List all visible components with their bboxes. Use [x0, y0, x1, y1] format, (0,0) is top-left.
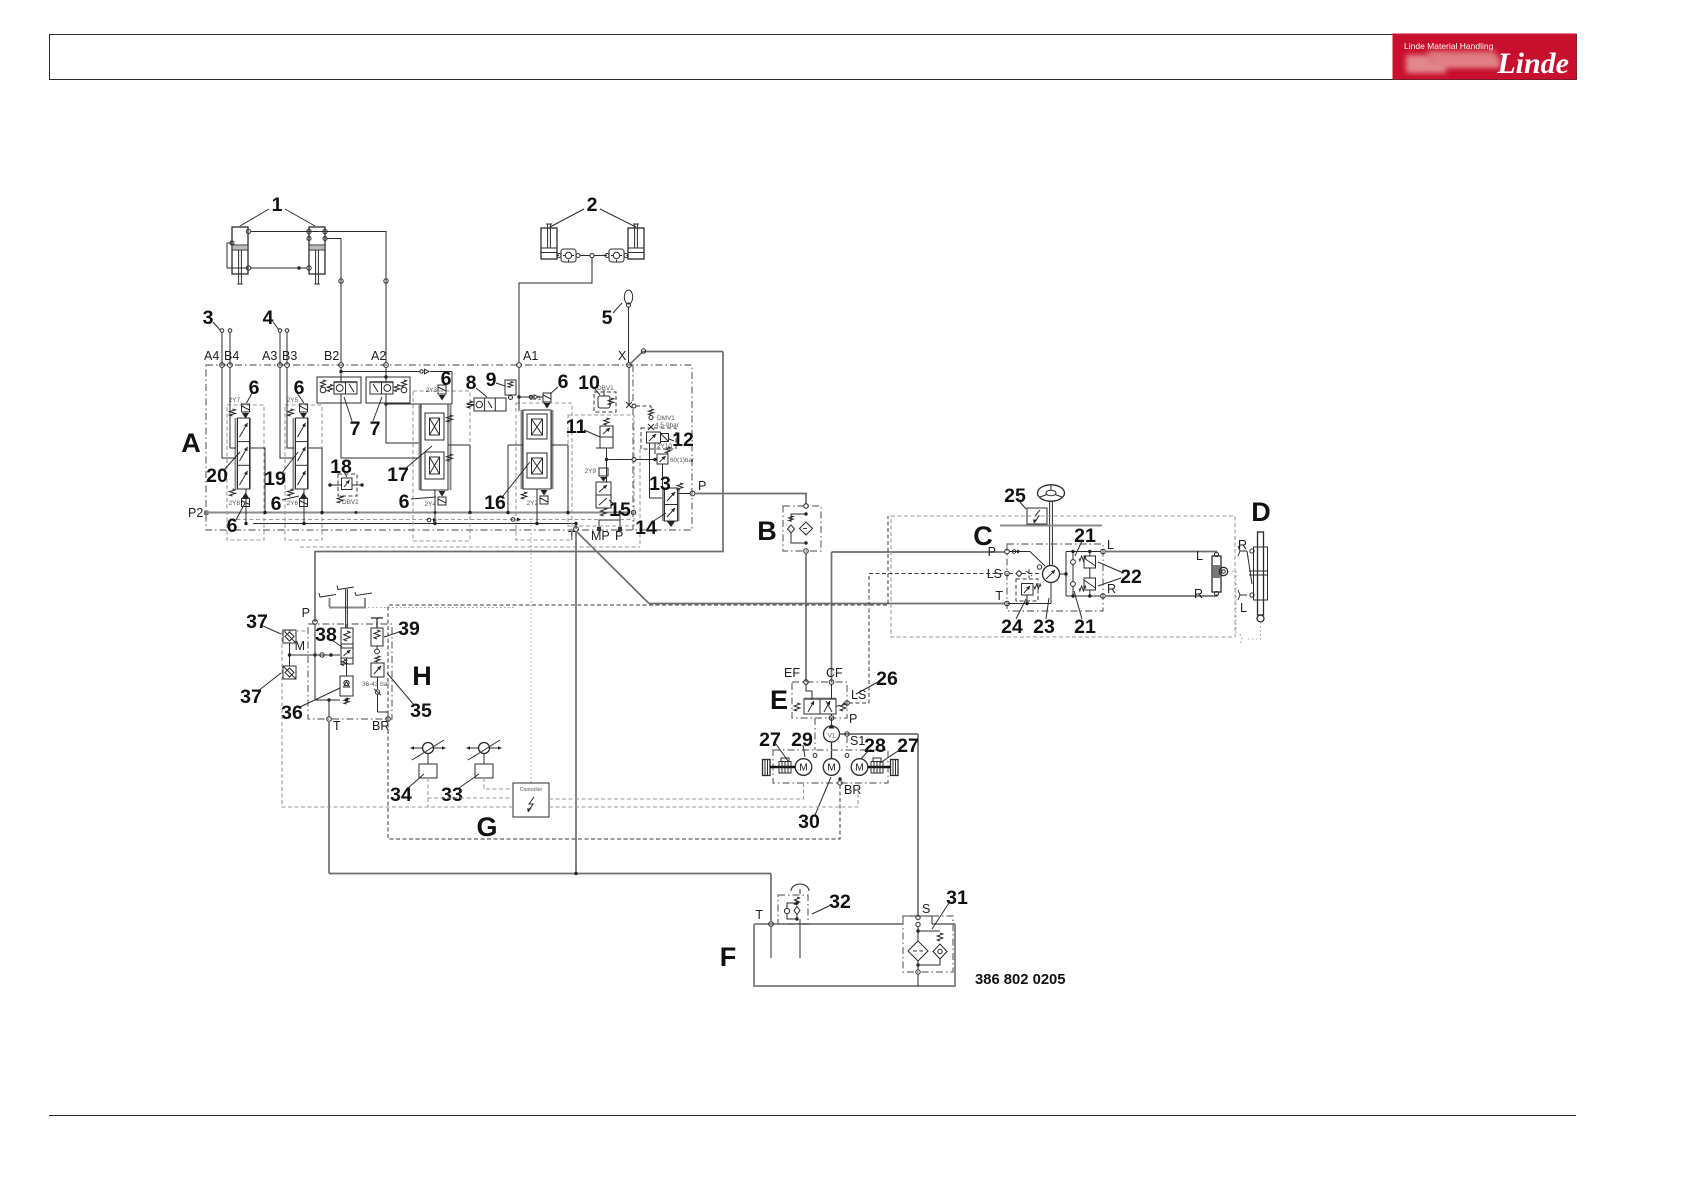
svg-text:27: 27	[897, 735, 919, 757]
svg-text:22: 22	[1120, 566, 1142, 588]
svg-text:2Y8: 2Y8	[229, 500, 241, 507]
svg-text:37: 37	[240, 686, 262, 708]
label 6 solenoid 2Y1	[550, 371, 569, 394]
right wheel 27	[868, 758, 898, 776]
bypass wire with check to X column	[341, 369, 452, 404]
valve 16 wires	[506, 445, 569, 525]
svg-text:CF: CF	[826, 666, 843, 680]
svg-text:Linde Material Handling: Linde Material Handling	[1404, 41, 1494, 51]
svg-text:30: 30	[798, 811, 820, 833]
svg-text:4,5-9bar: 4,5-9bar	[655, 422, 680, 429]
tank F	[754, 916, 955, 986]
labels 27 29 28 27 30	[759, 729, 919, 833]
brake pedal	[319, 586, 516, 629]
svg-text:S: S	[922, 902, 930, 916]
pressure relief valve 18 DBV2	[328, 474, 363, 506]
svg-text:P: P	[615, 529, 623, 543]
wires A4 B4 into valve 20	[222, 367, 236, 458]
svg-text:A1: A1	[523, 349, 538, 363]
traction motor 28	[851, 759, 868, 776]
wire CF to steering P	[832, 552, 1006, 682]
wire T column right	[574, 522, 577, 529]
svg-text:Controller: Controller	[520, 787, 543, 793]
wire B2 through valve 7	[339, 367, 419, 458]
svg-text:MP: MP	[591, 529, 610, 543]
svg-text:Linde: Linde	[1496, 47, 1569, 80]
svg-text:37: 37	[246, 611, 268, 633]
svg-text:B2: B2	[324, 349, 339, 363]
svg-text:2Y3: 2Y3	[426, 387, 438, 394]
accumulator 39	[371, 618, 420, 654]
port BR motors	[838, 777, 862, 797]
steering orbital 23	[1008, 550, 1060, 639]
steering L R ports	[1101, 538, 1116, 598]
svg-text:21: 21	[1074, 525, 1096, 547]
left wheel 27	[763, 758, 796, 776]
directional valve 20 with solenoids 2Y7 2Y8	[229, 397, 250, 507]
wire valve 11 to 15	[596, 448, 657, 482]
svg-text:DMV1: DMV1	[657, 415, 675, 422]
valve 19 outlet wires	[302, 448, 323, 525]
svg-text:17: 17	[387, 464, 409, 486]
wire H T to tank line	[328, 721, 330, 874]
valve 17 wires	[433, 445, 471, 525]
svg-text:B4: B4	[224, 349, 239, 363]
hose connections 3	[203, 307, 232, 365]
ports MP and P block A	[591, 510, 623, 543]
svg-text:DBV2: DBV2	[342, 499, 359, 506]
electrical dashed box below block A	[227, 405, 264, 540]
speed sensor 33	[441, 740, 502, 806]
return filter B	[783, 504, 821, 554]
svg-text:P: P	[849, 712, 857, 726]
label 6 solenoid 2Y6	[271, 493, 299, 515]
label 17	[387, 446, 432, 486]
wires L R to steering cylinder	[1105, 552, 1217, 597]
svg-text:36: 36	[281, 702, 303, 724]
label 19	[264, 452, 298, 490]
T return rail	[253, 523, 576, 525]
P2 rail junction dots	[264, 511, 622, 514]
svg-text:6: 6	[399, 491, 410, 513]
traction motor 29	[795, 759, 812, 776]
lift cylinder 2 left	[541, 224, 557, 259]
svg-text:P: P	[988, 545, 996, 559]
svg-text:P: P	[302, 606, 310, 620]
svg-text:23: 23	[1033, 616, 1055, 638]
wire EF from filter	[805, 553, 807, 682]
svg-text:2Y10: 2Y10	[657, 443, 672, 450]
svg-text:6: 6	[558, 371, 569, 393]
lock valve 7 left	[317, 377, 361, 403]
steering wheel 23 column	[1038, 485, 1065, 566]
svg-text:12: 12	[672, 429, 694, 451]
electrical harness dashed box	[282, 516, 888, 807]
pressure valve 60 bar	[650, 443, 696, 498]
svg-text:A: A	[181, 428, 201, 458]
svg-text:F: F	[720, 942, 737, 972]
svg-text:24: 24	[1001, 616, 1023, 638]
svg-text:6: 6	[441, 368, 452, 390]
svg-text:M: M	[799, 763, 807, 774]
wire tilt bottom crossover	[227, 243, 307, 270]
svg-text:21: 21	[1074, 616, 1096, 638]
svg-text:X: X	[618, 349, 627, 363]
bottom rule	[49, 1115, 1576, 1117]
svg-text:25: 25	[1004, 485, 1026, 507]
charge valve 36	[281, 658, 353, 724]
wire tilt top to A2	[251, 232, 389, 364]
svg-text:27: 27	[759, 729, 781, 751]
BR pilot dashed line	[388, 721, 840, 839]
svg-text:39: 39	[398, 618, 420, 640]
svg-text:5: 5	[602, 307, 613, 329]
svg-text:V1: V1	[828, 733, 836, 740]
svg-text:6: 6	[271, 493, 282, 515]
label 6 solenoid 2Y4	[399, 491, 436, 513]
svg-text:1: 1	[272, 194, 283, 216]
svg-text:T: T	[333, 719, 341, 733]
svg-text:2: 2	[587, 194, 598, 216]
svg-text:T: T	[995, 589, 1003, 603]
label 6 solenoid 2Y8	[227, 503, 245, 537]
suction strainer 31	[903, 887, 968, 986]
svg-text:8: 8	[466, 372, 477, 394]
breather 32	[778, 884, 851, 958]
svg-text:G: G	[476, 812, 497, 842]
svg-text:4: 4	[263, 307, 274, 329]
label 18	[330, 456, 352, 478]
label 16	[484, 462, 530, 514]
controller wiring dashed	[428, 521, 858, 807]
hand pump valve 8	[466, 372, 506, 411]
svg-text:386 802 0205: 386 802 0205	[975, 972, 1066, 988]
pilot valve 15 solenoid 2Y9	[585, 468, 631, 521]
lock valve 7 right	[366, 377, 410, 403]
wire T return to tank	[329, 872, 771, 922]
svg-text:38: 38	[315, 624, 337, 646]
tilt cylinder 1 right	[307, 227, 327, 284]
svg-text:P2: P2	[188, 506, 203, 520]
LS dashed rail	[230, 518, 633, 523]
svg-text:29: 29	[791, 729, 813, 751]
labels 7 7	[344, 397, 382, 440]
port P block A right	[690, 479, 706, 496]
svg-text:31: 31	[946, 887, 968, 909]
wire P to filter B	[695, 494, 806, 505]
brake pressure valve 35	[362, 656, 432, 722]
svg-text:A4: A4	[204, 349, 219, 363]
label 6 solenoid 2Y5	[294, 377, 305, 403]
wire A2 through valve 7	[384, 367, 419, 443]
svg-text:H: H	[412, 661, 432, 691]
dashed box around C and D	[891, 516, 1235, 637]
master brake valve 38	[315, 624, 353, 666]
label 6 solenoid 2Y7	[247, 377, 260, 403]
svg-text:A2: A2	[371, 349, 386, 363]
svg-text:E: E	[770, 685, 788, 715]
tilt cylinder 1 left	[230, 227, 251, 284]
ports T BR of H	[327, 698, 391, 733]
accumulator 5	[602, 290, 633, 363]
label 26 LS line	[849, 574, 1005, 704]
svg-text:BR: BR	[372, 719, 389, 733]
valve block A border	[206, 365, 692, 530]
svg-text:B: B	[757, 516, 777, 546]
svg-text:D: D	[1251, 497, 1271, 527]
label 1	[240, 194, 315, 226]
controller G	[513, 783, 549, 817]
svg-text:60(1)bar: 60(1)bar	[670, 457, 695, 464]
lift cylinder 2 right	[628, 224, 644, 259]
priority valve E box	[792, 682, 847, 718]
steering cylinder	[1194, 549, 1236, 634]
svg-text:35: 35	[410, 700, 432, 722]
svg-text:P: P	[698, 479, 706, 493]
X port plug	[626, 367, 651, 409]
svg-text:16: 16	[484, 492, 506, 514]
Linde red banner	[1393, 34, 1577, 81]
wire lift line to A1	[519, 253, 628, 363]
svg-text:3: 3	[203, 307, 214, 329]
svg-text:36-43 bar: 36-43 bar	[362, 681, 390, 688]
steer axle D	[1238, 532, 1268, 644]
P2 gray rail	[206, 510, 636, 514]
svg-text:7: 7	[350, 418, 361, 440]
svg-text:18: 18	[330, 456, 352, 478]
svg-text:7: 7	[370, 418, 381, 440]
header frame	[50, 35, 1577, 80]
pump motor 30	[823, 759, 840, 776]
steering unit C box	[1007, 544, 1103, 611]
svg-text:L: L	[1196, 549, 1203, 563]
svg-text:2Y6: 2Y6	[287, 500, 299, 507]
svg-text:28: 28	[864, 735, 886, 757]
port T block A	[568, 527, 578, 543]
brake valve H box	[308, 624, 392, 719]
svg-text:R: R	[1194, 587, 1203, 601]
svg-text:13: 13	[649, 473, 671, 495]
port M and test points 37	[240, 611, 348, 708]
svg-text:26: 26	[876, 668, 898, 690]
shock valves 21 22	[1059, 525, 1142, 638]
pressure reducing valve 12 DMV1 2Y10	[641, 409, 694, 451]
svg-text:R: R	[1107, 582, 1116, 596]
pump V1	[824, 718, 840, 759]
svg-text:B3: B3	[282, 349, 297, 363]
solenoid 2Y1	[530, 393, 551, 409]
svg-text:BR: BR	[844, 783, 861, 797]
port P2	[188, 506, 209, 520]
steering ports P LS T	[987, 545, 1010, 606]
svg-text:11: 11	[566, 416, 587, 438]
svg-text:M: M	[827, 763, 835, 774]
svg-text:L: L	[1240, 601, 1247, 615]
directional valve 16 with solenoids 2Y1 2Y2	[521, 410, 552, 507]
svg-text:6: 6	[227, 515, 238, 537]
svg-text:L: L	[1107, 538, 1114, 552]
block A ports	[204, 349, 631, 367]
tank T port	[755, 908, 773, 958]
label 6 solenoid 2Y3	[441, 368, 452, 390]
svg-text:EF: EF	[784, 666, 800, 680]
svg-text:14: 14	[635, 517, 657, 539]
lowering valve right	[605, 249, 628, 262]
label 20	[206, 452, 240, 487]
directional valve 17 with solenoids 2Y3 2Y4	[420, 385, 453, 508]
lowering valve left	[557, 249, 580, 262]
priority valve spool	[794, 684, 846, 716]
pressure relief DBV1 10	[578, 372, 616, 412]
valve 20 outlet wires	[244, 448, 266, 525]
label 2	[550, 194, 636, 227]
svg-text:2Y9: 2Y9	[585, 468, 597, 475]
directional valve 19 with solenoids 2Y5 2Y6	[287, 397, 308, 507]
hose connections 4	[263, 307, 289, 365]
wire T to steering and tank	[576, 531, 1005, 873]
speed sensor 34	[390, 740, 446, 806]
svg-text:32: 32	[829, 891, 851, 913]
wires A3 B3 into valve 19	[280, 367, 294, 458]
svg-text:M: M	[855, 763, 863, 774]
wire tilt rod side to B2	[327, 239, 343, 364]
ports EF CF LS P of E	[784, 666, 866, 726]
ignition switch 25	[1000, 485, 1102, 526]
steering relief valve 24	[1001, 579, 1041, 638]
svg-text:S1: S1	[850, 734, 865, 748]
svg-text:20: 20	[206, 465, 228, 487]
electrical dashed columns in block A	[0, 0, 1, 1]
svg-text:A3: A3	[262, 349, 277, 363]
svg-text:T: T	[755, 908, 763, 922]
wire A1 to valve 16	[517, 367, 543, 411]
svg-text:9: 9	[486, 369, 497, 391]
port S1	[840, 732, 919, 915]
port P of H	[302, 606, 318, 624]
check valve 9	[486, 369, 516, 400]
pilot valve 13 14	[635, 473, 690, 539]
wire X pilot to brake valve P	[315, 349, 723, 622]
valve 11	[566, 416, 613, 462]
drive motor box	[773, 718, 888, 783]
